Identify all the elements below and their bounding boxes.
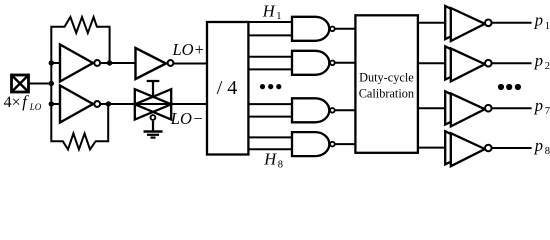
svg-text:8: 8 (545, 146, 550, 157)
svg-text:p: p (534, 96, 543, 115)
svg-text:2: 2 (545, 61, 550, 72)
svg-text:1: 1 (545, 21, 550, 32)
svg-text:p: p (534, 11, 543, 30)
svg-text:f: f (22, 92, 29, 111)
svg-text:LO+: LO+ (172, 40, 204, 59)
svg-text:7: 7 (545, 106, 550, 117)
svg-text:H: H (263, 149, 277, 168)
svg-text:p: p (534, 136, 543, 155)
svg-text:/ 4: / 4 (217, 77, 238, 99)
svg-text:LO−: LO− (170, 109, 203, 128)
svg-text:4×: 4× (4, 94, 21, 111)
svg-text:H: H (262, 2, 276, 21)
svg-text:Calibration: Calibration (359, 86, 414, 100)
svg-text:Duty-cycle: Duty-cycle (359, 71, 414, 85)
svg-text:LO: LO (29, 102, 42, 112)
svg-text:p: p (534, 51, 543, 70)
svg-text:8: 8 (278, 159, 283, 170)
svg-text:1: 1 (276, 11, 281, 22)
